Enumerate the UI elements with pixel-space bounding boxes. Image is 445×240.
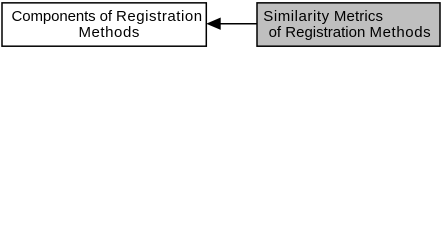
- svg-text:of Registration Methods: of Registration Methods: [269, 24, 432, 41]
- node: Similarity Metrics of Registration Methods (current node, grey box): [257, 3, 440, 46]
- svg-text:Methods: Methods: [79, 24, 140, 41]
- node: Components of Registration Methods (box): [2, 3, 206, 46]
- edge: arrow from grey box to left box: [208, 18, 258, 29]
- svg-text:Similarity Metrics: Similarity Metrics: [263, 8, 383, 25]
- svg-text:Components of Registration: Components of Registration: [12, 8, 203, 25]
